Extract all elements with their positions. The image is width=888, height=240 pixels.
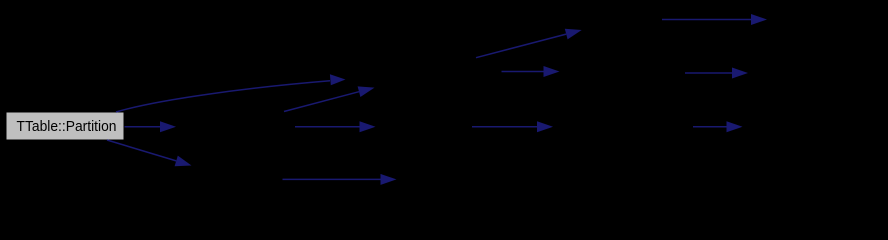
edge horizontal (row y=127, col3) (472, 121, 553, 132)
edge diagonal mid-left rising (284, 86, 375, 111)
edge horizontal right (row y=127, col4) (693, 121, 743, 132)
edge horizontal bottom (row y=179) (283, 174, 397, 185)
edge horizontal right (row y=73) (685, 68, 748, 79)
edge diagonal from TTable::Partition to lower node (107, 140, 192, 166)
edge horizontal mid (row y=127, col2) (295, 121, 376, 132)
edge horizontal from TTable::Partition (row y=127) (125, 121, 177, 132)
edge horizontal (row y=71.5) (502, 66, 560, 77)
svg-text:TTable::Partition: TTable::Partition (17, 119, 117, 135)
edge horizontal top-right (row y=19) (662, 14, 767, 25)
edge curved from TTable::Partition to upper node (116, 74, 346, 112)
node TTable::Partition (7, 113, 124, 140)
edge diagonal upper-right rising (476, 29, 582, 58)
